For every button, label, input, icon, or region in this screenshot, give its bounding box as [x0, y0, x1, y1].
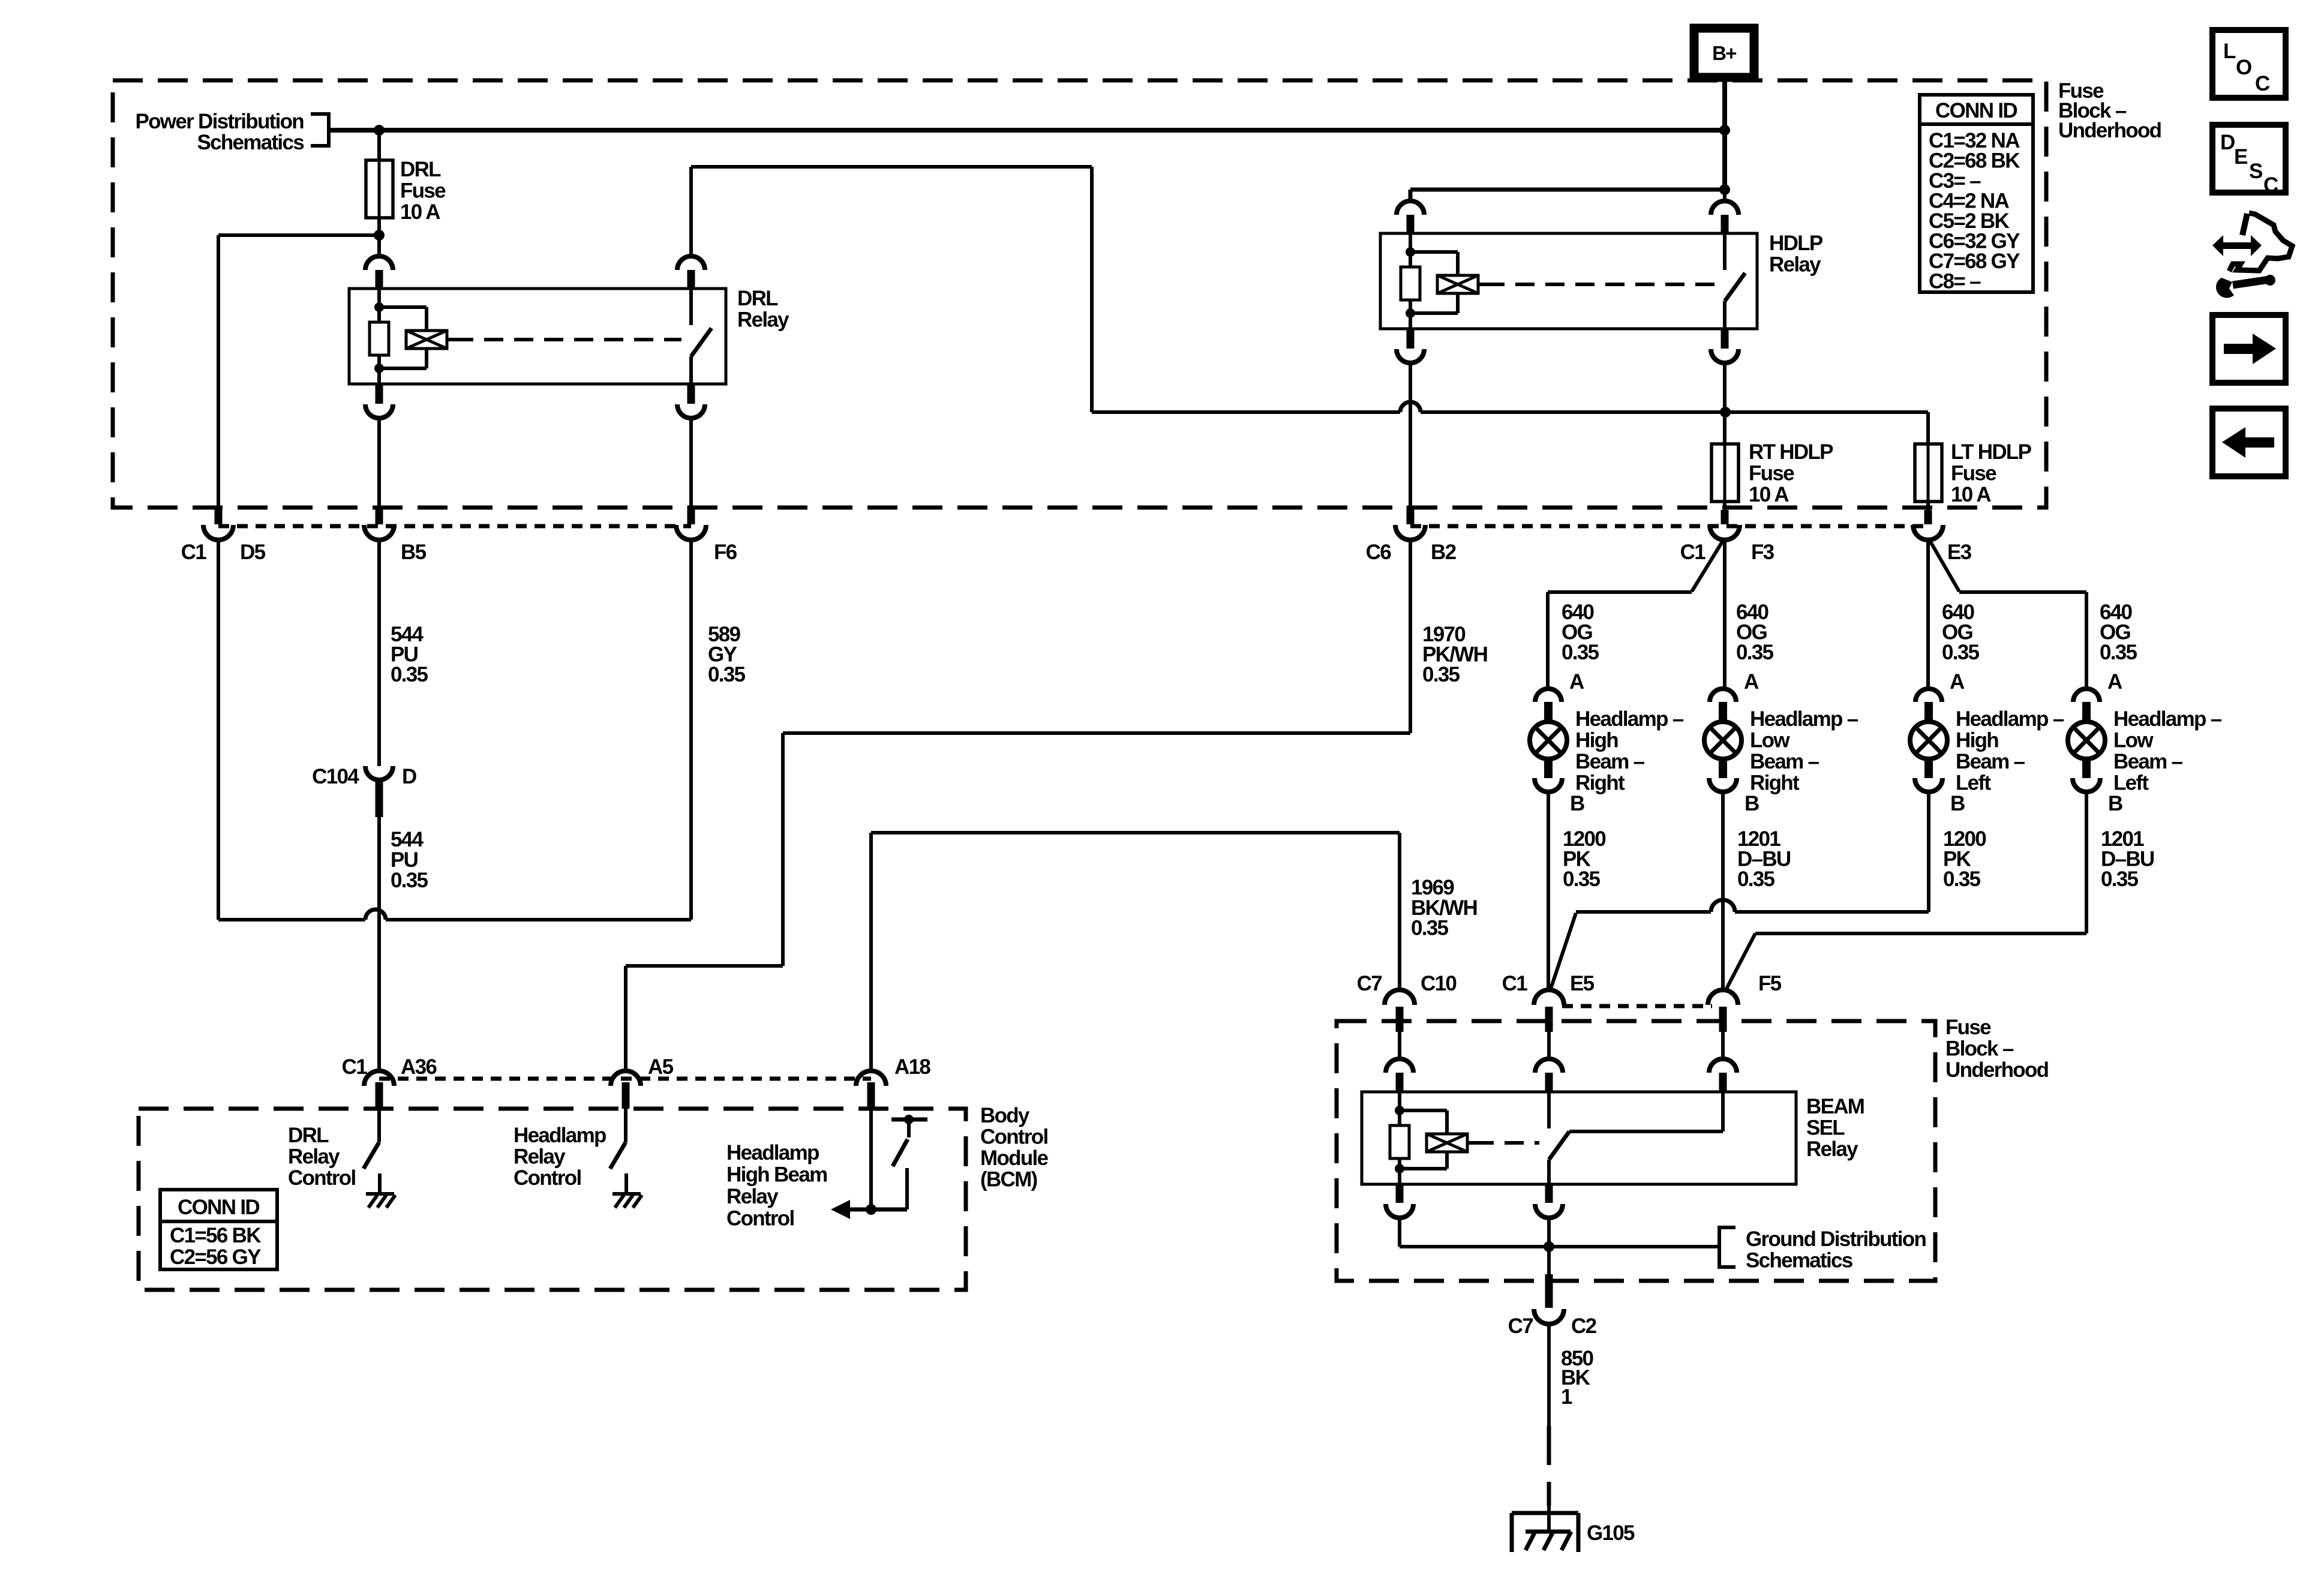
svg-text:Underhood: Underhood — [1945, 1058, 2049, 1082]
svg-text:Headlamp –: Headlamp – — [1750, 707, 1858, 731]
svg-text:C: C — [2263, 173, 2278, 197]
svg-text:LT HDLP: LT HDLP — [1951, 440, 2032, 464]
svg-text:0.35: 0.35 — [391, 869, 428, 892]
svg-text:Headlamp: Headlamp — [514, 1124, 606, 1147]
svg-text:Fuse: Fuse — [400, 179, 446, 203]
svg-text:0.35: 0.35 — [391, 663, 428, 686]
svg-text:Ground Distribution: Ground Distribution — [1746, 1227, 1926, 1251]
svg-text:10 A: 10 A — [1749, 483, 1789, 506]
svg-text:Beam –: Beam – — [1575, 750, 1645, 773]
svg-text:E: E — [2234, 145, 2247, 169]
svg-text:Left: Left — [1956, 772, 1991, 795]
svg-text:BEAM: BEAM — [1806, 1095, 1864, 1118]
svg-text:DRL: DRL — [400, 158, 441, 181]
svg-text:(BCM): (BCM) — [980, 1168, 1037, 1191]
svg-text:E3: E3 — [1947, 541, 1972, 564]
svg-text:A36: A36 — [401, 1055, 437, 1079]
svg-text:O: O — [2236, 56, 2251, 79]
svg-text:Beam –: Beam – — [1956, 750, 2025, 773]
svg-text:0.35: 0.35 — [1562, 641, 1599, 664]
svg-text:Fuse: Fuse — [1749, 462, 1794, 485]
svg-text:C1=56 BK: C1=56 BK — [170, 1224, 261, 1247]
svg-text:0.35: 0.35 — [1563, 867, 1601, 891]
svg-text:Schematics: Schematics — [1746, 1249, 1853, 1272]
svg-text:Headlamp –: Headlamp – — [2113, 707, 2222, 731]
svg-text:G105: G105 — [1587, 1521, 1635, 1545]
svg-text:C6: C6 — [1366, 541, 1392, 564]
svg-text:Low: Low — [2113, 729, 2154, 752]
svg-text:Control: Control — [514, 1166, 581, 1190]
svg-text:B: B — [1744, 792, 1759, 815]
svg-text:Underhood: Underhood — [2058, 119, 2161, 142]
svg-text:A: A — [1950, 670, 1965, 694]
svg-text:High: High — [1956, 729, 1998, 752]
svg-text:A18: A18 — [894, 1055, 930, 1079]
svg-text:0.35: 0.35 — [1943, 867, 1981, 891]
svg-text:0.35: 0.35 — [1411, 917, 1449, 940]
svg-text:Control: Control — [726, 1207, 794, 1230]
svg-text:0.35: 0.35 — [1737, 867, 1775, 891]
svg-text:C2: C2 — [1571, 1314, 1597, 1338]
svg-text:RT HDLP: RT HDLP — [1749, 440, 1833, 464]
svg-text:0.35: 0.35 — [2100, 641, 2137, 664]
svg-text:CONN ID: CONN ID — [1935, 99, 2017, 122]
svg-text:Right: Right — [1750, 772, 1800, 795]
svg-text:C1: C1 — [1680, 541, 1706, 564]
svg-text:Relay: Relay — [288, 1145, 340, 1169]
svg-text:Right: Right — [1575, 772, 1625, 795]
svg-text:A: A — [2107, 670, 2122, 694]
svg-text:A: A — [1569, 670, 1584, 694]
svg-text:Power Distribution: Power Distribution — [135, 110, 304, 133]
svg-text:Relay: Relay — [726, 1185, 779, 1208]
svg-text:Relay: Relay — [1769, 253, 1821, 277]
svg-text:L: L — [2223, 40, 2236, 63]
svg-text:Relay: Relay — [1806, 1137, 1858, 1161]
svg-text:C: C — [2255, 72, 2270, 95]
svg-text:0.35: 0.35 — [1942, 641, 1980, 664]
svg-text:Relay: Relay — [737, 308, 789, 332]
svg-text:D5: D5 — [240, 541, 266, 564]
svg-text:B2: B2 — [1431, 541, 1457, 564]
svg-text:Control: Control — [980, 1125, 1048, 1149]
svg-text:C10: C10 — [1421, 972, 1457, 995]
svg-text:0.35: 0.35 — [708, 663, 746, 686]
svg-text:D: D — [2220, 131, 2235, 154]
svg-text:B5: B5 — [401, 541, 427, 564]
svg-text:S: S — [2249, 160, 2262, 183]
svg-text:Low: Low — [1750, 729, 1790, 752]
svg-text:0.35: 0.35 — [1736, 641, 1774, 664]
svg-text:Relay: Relay — [514, 1145, 566, 1169]
svg-text:Control: Control — [288, 1166, 356, 1190]
svg-text:Schematics: Schematics — [197, 131, 304, 154]
svg-text:C1: C1 — [181, 541, 207, 564]
svg-text:E5: E5 — [1570, 972, 1595, 995]
svg-text:Headlamp –: Headlamp – — [1956, 707, 2064, 731]
svg-text:0.35: 0.35 — [1422, 663, 1460, 686]
svg-text:High Beam: High Beam — [726, 1163, 827, 1187]
svg-text:SEL: SEL — [1806, 1116, 1845, 1140]
svg-text:10 A: 10 A — [400, 200, 440, 224]
svg-text:B: B — [1950, 792, 1965, 815]
svg-text:CONN ID: CONN ID — [178, 1196, 259, 1219]
svg-text:Block –: Block – — [1945, 1037, 2014, 1061]
svg-text:Fuse: Fuse — [1951, 462, 1996, 485]
svg-text:Left: Left — [2113, 772, 2149, 795]
svg-text:Body: Body — [980, 1104, 1030, 1127]
svg-text:DRL: DRL — [737, 287, 778, 310]
svg-text:F5: F5 — [1758, 972, 1782, 995]
svg-text:C104: C104 — [312, 765, 359, 788]
svg-text:C7: C7 — [1357, 972, 1382, 995]
svg-text:B: B — [2108, 792, 2122, 815]
svg-text:10 A: 10 A — [1951, 483, 1991, 506]
svg-text:D: D — [402, 765, 416, 788]
svg-text:F3: F3 — [1751, 541, 1774, 564]
svg-text:Beam –: Beam – — [2113, 750, 2183, 773]
svg-text:Headlamp: Headlamp — [726, 1141, 819, 1164]
svg-text:A: A — [1744, 670, 1759, 694]
svg-text:C8= –: C8= – — [1929, 270, 1981, 293]
svg-text:C7: C7 — [1508, 1314, 1533, 1338]
svg-text:0.35: 0.35 — [2101, 867, 2139, 891]
svg-text:DRL: DRL — [288, 1124, 329, 1147]
svg-text:Fuse: Fuse — [1945, 1016, 1991, 1039]
svg-text:1: 1 — [1561, 1385, 1572, 1409]
svg-text:Beam –: Beam – — [1750, 750, 1819, 773]
svg-text:B: B — [1570, 792, 1584, 815]
svg-text:A5: A5 — [648, 1055, 674, 1079]
svg-text:Headlamp –: Headlamp – — [1575, 707, 1684, 731]
svg-text:C1: C1 — [1502, 972, 1528, 995]
svg-text:HDLP: HDLP — [1769, 232, 1823, 255]
svg-text:F6: F6 — [714, 541, 737, 564]
svg-text:Module: Module — [980, 1146, 1049, 1170]
svg-text:C2=56 GY: C2=56 GY — [170, 1245, 261, 1269]
svg-text:B+: B+ — [1712, 42, 1736, 64]
svg-text:High: High — [1575, 729, 1618, 752]
svg-text:C1: C1 — [342, 1055, 368, 1079]
